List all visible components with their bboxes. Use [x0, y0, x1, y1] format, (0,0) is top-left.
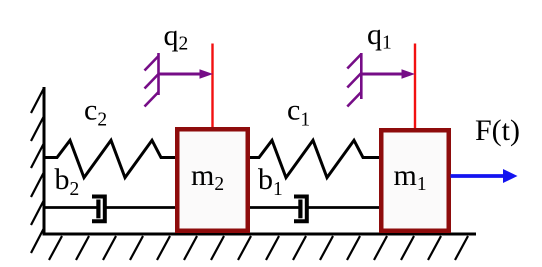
svg-text:F(t): F(t) — [475, 114, 520, 147]
